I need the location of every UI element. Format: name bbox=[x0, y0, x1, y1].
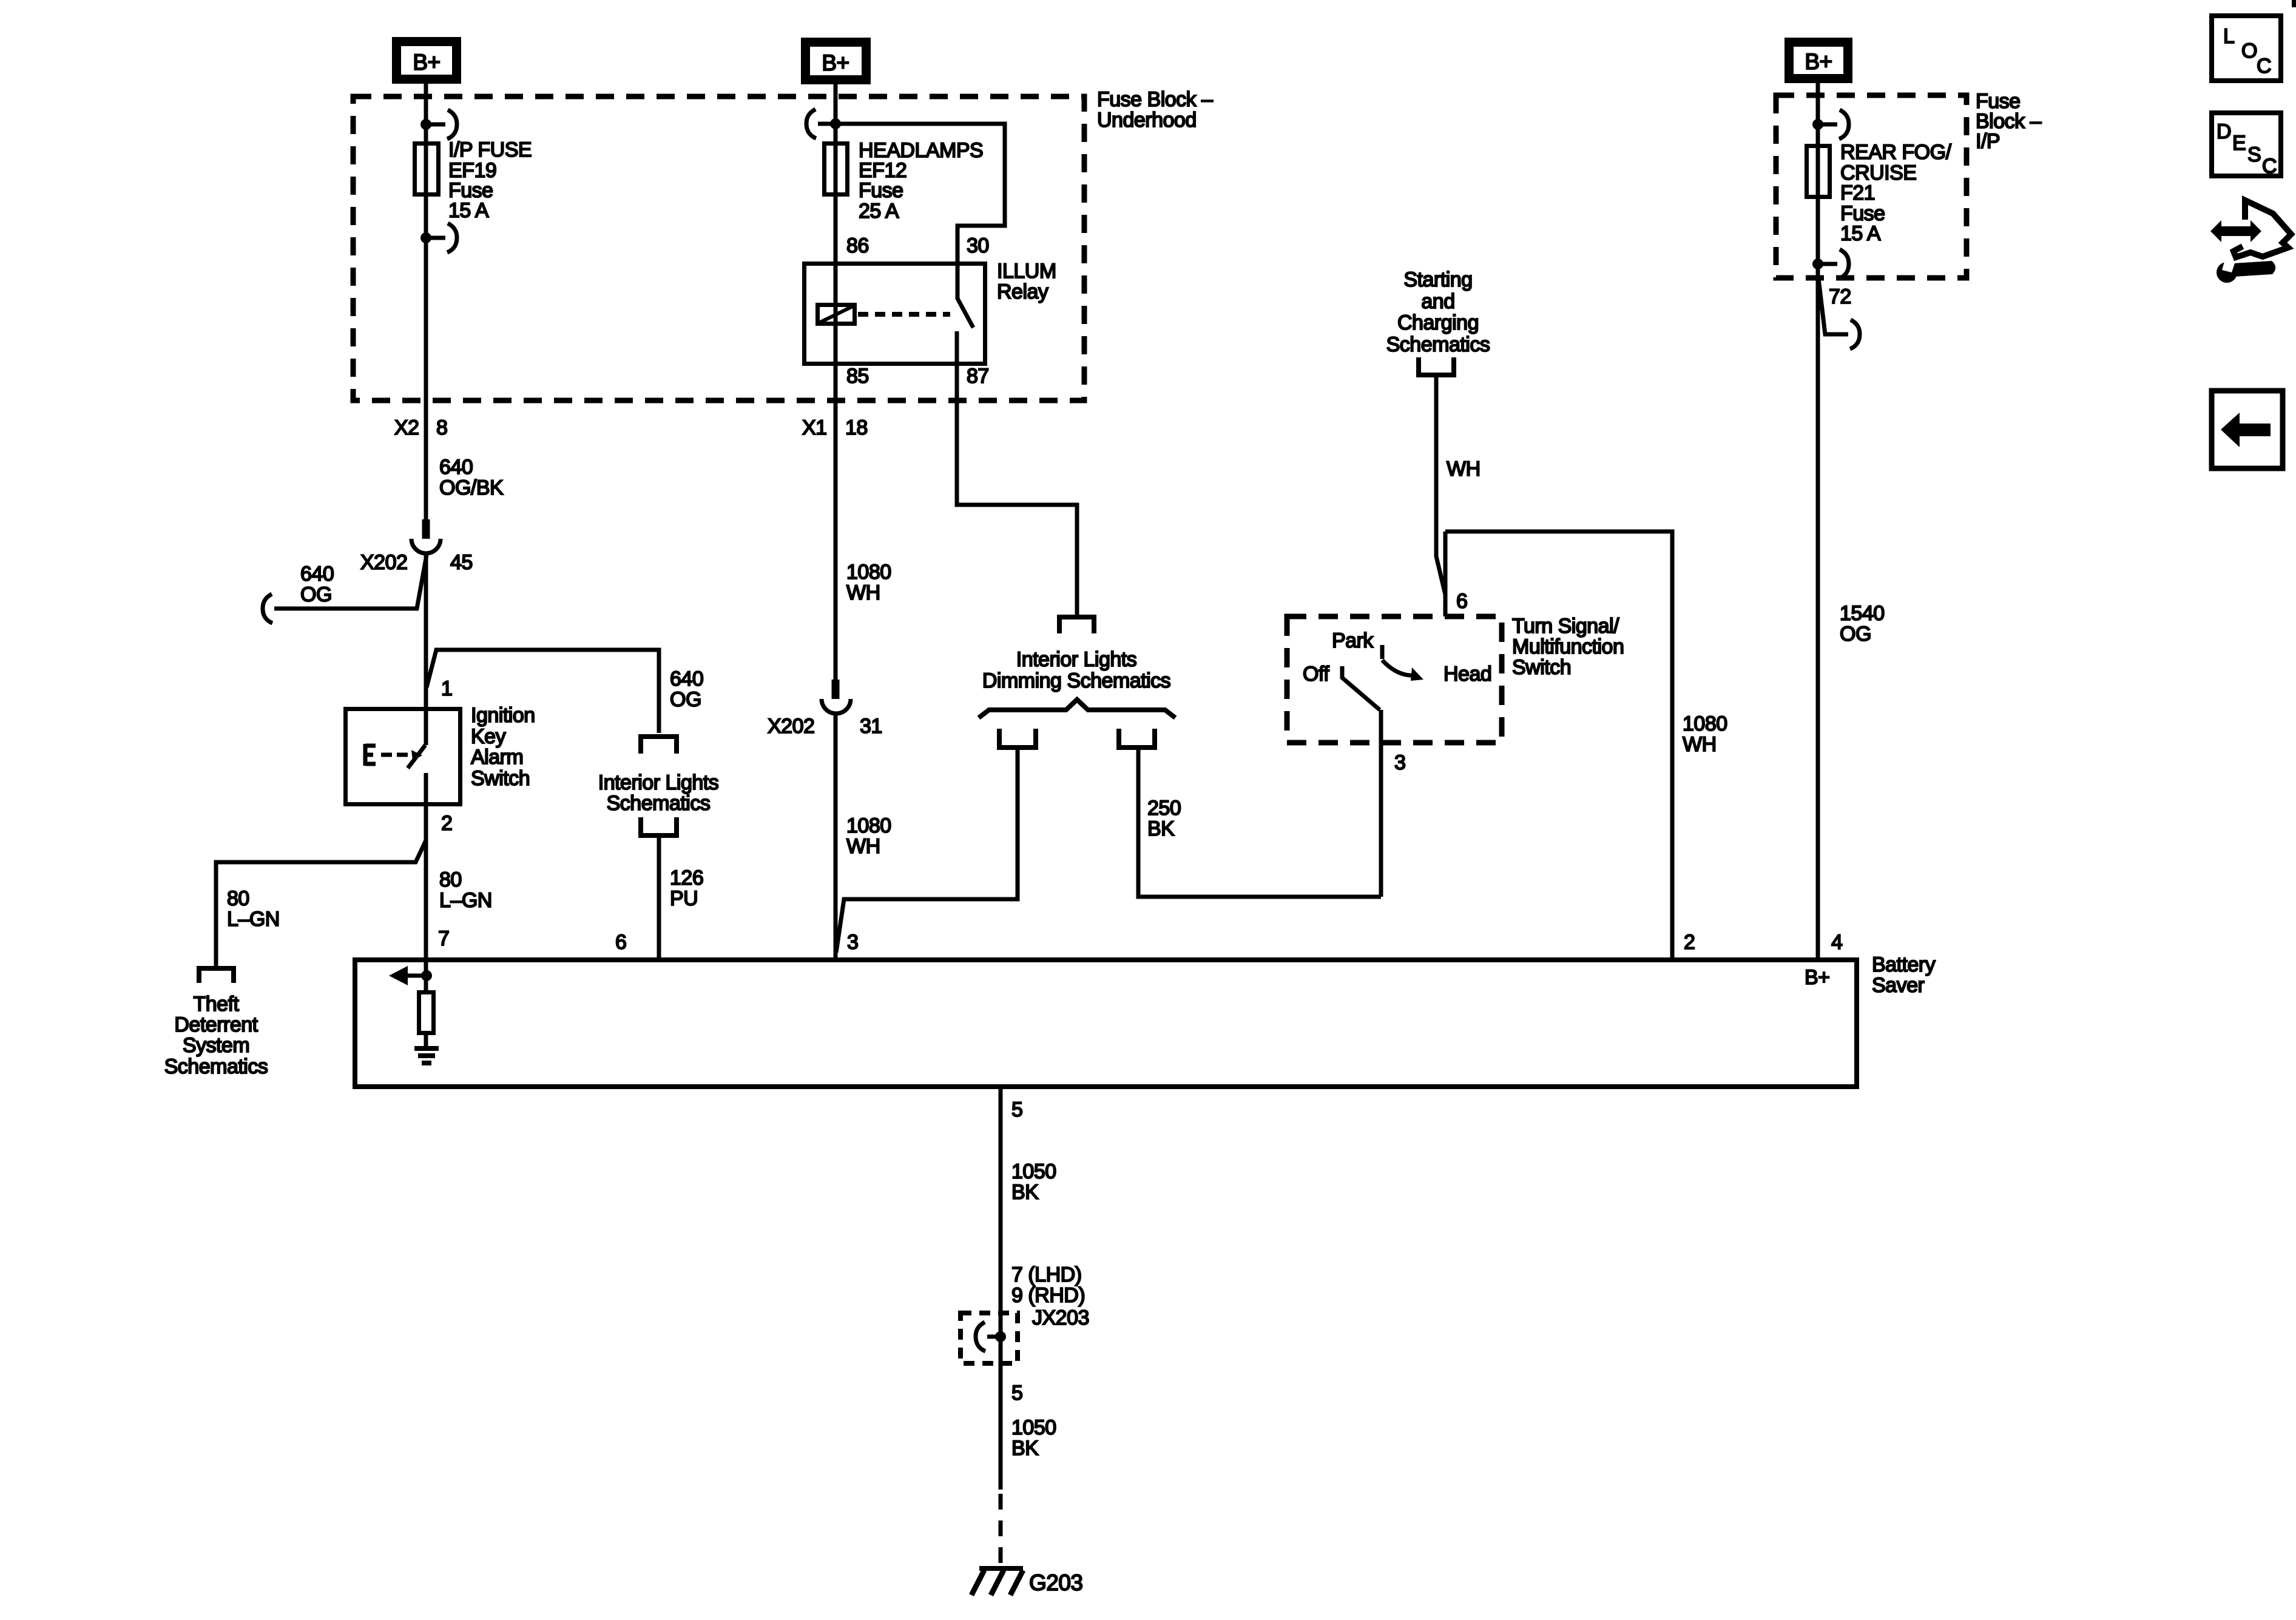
svg-text:640: 640 bbox=[670, 667, 703, 690]
svg-text:1: 1 bbox=[441, 677, 452, 700]
svg-text:Off: Off bbox=[1303, 663, 1329, 686]
svg-text:WH: WH bbox=[1683, 733, 1717, 756]
svg-text:Alarm: Alarm bbox=[471, 746, 523, 769]
svg-text:3: 3 bbox=[847, 931, 858, 954]
svg-text:B+: B+ bbox=[822, 50, 849, 75]
svg-text:8: 8 bbox=[436, 416, 447, 439]
svg-text:5: 5 bbox=[1011, 1382, 1022, 1405]
svg-text:2: 2 bbox=[1684, 931, 1695, 954]
svg-text:L–GN: L–GN bbox=[439, 889, 492, 912]
svg-text:WH: WH bbox=[1447, 457, 1481, 481]
svg-text:Dimming Schematics: Dimming Schematics bbox=[982, 669, 1170, 692]
svg-text:Theft: Theft bbox=[194, 993, 240, 1016]
svg-text:OG: OG bbox=[300, 583, 332, 606]
svg-text:BK: BK bbox=[1011, 1181, 1039, 1204]
svg-text:25 A: 25 A bbox=[859, 200, 899, 223]
svg-text:Ignition: Ignition bbox=[471, 704, 535, 727]
svg-text:B+: B+ bbox=[1805, 49, 1832, 74]
svg-text:30: 30 bbox=[967, 234, 989, 257]
svg-text:1080: 1080 bbox=[846, 561, 891, 584]
svg-text:31: 31 bbox=[860, 715, 882, 738]
svg-text:5: 5 bbox=[1011, 1098, 1022, 1121]
svg-text:B+: B+ bbox=[413, 50, 440, 75]
svg-text:OG: OG bbox=[670, 688, 701, 711]
svg-text:80: 80 bbox=[227, 887, 249, 910]
svg-text:B+: B+ bbox=[1805, 966, 1830, 989]
svg-text:86: 86 bbox=[846, 234, 869, 257]
svg-text:Interior Lights: Interior Lights bbox=[1016, 648, 1137, 671]
svg-text:2: 2 bbox=[441, 812, 452, 835]
svg-text:Deterrent: Deterrent bbox=[174, 1013, 258, 1036]
svg-text:1050: 1050 bbox=[1011, 1416, 1056, 1439]
svg-text:O: O bbox=[2241, 39, 2257, 62]
svg-text:WH: WH bbox=[846, 581, 880, 604]
svg-text:Fuse: Fuse bbox=[859, 179, 903, 202]
svg-text:1540: 1540 bbox=[1840, 602, 1885, 625]
svg-text:OG/BK: OG/BK bbox=[439, 476, 504, 499]
svg-text:Multifunction: Multifunction bbox=[1512, 635, 1624, 658]
svg-text:X2: X2 bbox=[394, 416, 419, 439]
svg-text:640: 640 bbox=[300, 562, 334, 586]
svg-text:Starting: Starting bbox=[1403, 268, 1472, 291]
svg-text:I/P: I/P bbox=[1976, 130, 2000, 153]
svg-text:D: D bbox=[2217, 120, 2231, 143]
svg-text:BK: BK bbox=[1147, 817, 1175, 840]
svg-text:X202: X202 bbox=[360, 551, 407, 574]
svg-text:7 (LHD): 7 (LHD) bbox=[1011, 1263, 1082, 1286]
svg-text:S: S bbox=[2247, 143, 2261, 166]
svg-text:G203: G203 bbox=[1029, 1570, 1083, 1595]
svg-text:Turn Signal/: Turn Signal/ bbox=[1512, 615, 1619, 638]
svg-text:Switch: Switch bbox=[471, 767, 530, 790]
svg-text:3: 3 bbox=[1394, 751, 1405, 774]
svg-text:System: System bbox=[183, 1034, 249, 1057]
svg-text:72: 72 bbox=[1829, 285, 1851, 308]
svg-text:Saver: Saver bbox=[1872, 974, 1924, 997]
svg-text:Interior Lights: Interior Lights bbox=[598, 771, 719, 794]
svg-text:Relay: Relay bbox=[997, 280, 1048, 303]
svg-text:1080: 1080 bbox=[1683, 712, 1727, 735]
svg-text:L–GN: L–GN bbox=[227, 908, 280, 931]
svg-text:9 (RHD): 9 (RHD) bbox=[1011, 1284, 1085, 1307]
svg-text:Schematics: Schematics bbox=[1386, 333, 1490, 356]
svg-text:Switch: Switch bbox=[1512, 656, 1571, 679]
svg-text:Schematics: Schematics bbox=[607, 792, 711, 815]
svg-text:Charging: Charging bbox=[1397, 311, 1479, 334]
svg-text:Key: Key bbox=[471, 725, 506, 748]
svg-text:E: E bbox=[2232, 132, 2246, 155]
svg-text:Fuse Block –: Fuse Block – bbox=[1097, 88, 1213, 111]
svg-text:OG: OG bbox=[1840, 623, 1871, 646]
svg-text:JX203: JX203 bbox=[1032, 1306, 1089, 1329]
svg-text:Schematics: Schematics bbox=[164, 1055, 268, 1078]
svg-text:250: 250 bbox=[1147, 797, 1181, 820]
svg-text:Battery: Battery bbox=[1872, 953, 1936, 976]
svg-text:Underhood: Underhood bbox=[1097, 109, 1197, 132]
svg-text:7: 7 bbox=[438, 927, 449, 950]
svg-text:85: 85 bbox=[846, 365, 869, 388]
svg-text:and: and bbox=[1421, 290, 1454, 313]
svg-text:126: 126 bbox=[670, 866, 703, 889]
svg-text:C: C bbox=[2262, 155, 2277, 178]
svg-text:Park: Park bbox=[1332, 629, 1374, 652]
svg-text:REAR FOG/: REAR FOG/ bbox=[1840, 141, 1952, 164]
svg-text:80: 80 bbox=[439, 868, 462, 891]
svg-text:X1: X1 bbox=[802, 416, 827, 439]
svg-text:X202: X202 bbox=[768, 715, 814, 738]
svg-text:6: 6 bbox=[615, 931, 626, 954]
svg-text:F21: F21 bbox=[1840, 181, 1875, 204]
svg-text:I/P FUSE: I/P FUSE bbox=[448, 138, 532, 161]
svg-text:15 A: 15 A bbox=[448, 199, 489, 222]
svg-text:PU: PU bbox=[670, 887, 698, 910]
svg-text:15 A: 15 A bbox=[1840, 222, 1881, 245]
svg-text:1080: 1080 bbox=[846, 814, 891, 837]
svg-text:Head: Head bbox=[1443, 663, 1491, 686]
svg-text:87: 87 bbox=[967, 365, 989, 388]
svg-text:1050: 1050 bbox=[1011, 1160, 1056, 1183]
svg-text:WH: WH bbox=[846, 835, 880, 858]
svg-text:BK: BK bbox=[1011, 1437, 1039, 1460]
svg-text:L: L bbox=[2223, 25, 2234, 48]
svg-text:ILLUM: ILLUM bbox=[997, 260, 1056, 283]
svg-text:4: 4 bbox=[1831, 931, 1842, 954]
svg-text:C: C bbox=[2257, 55, 2271, 78]
svg-text:45: 45 bbox=[450, 551, 473, 574]
svg-text:640: 640 bbox=[439, 456, 473, 479]
svg-text:18: 18 bbox=[845, 416, 868, 439]
svg-text:6: 6 bbox=[1456, 590, 1467, 613]
